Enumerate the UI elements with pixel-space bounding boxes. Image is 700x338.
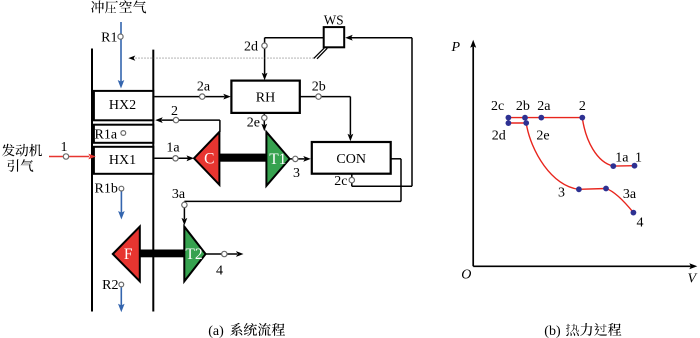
node R1	[118, 34, 123, 39]
process line 2d-2e	[508, 122, 526, 124]
state point 4	[631, 210, 637, 216]
svg-text:RH: RH	[256, 91, 275, 106]
svg-text:O: O	[461, 268, 471, 283]
node 2	[173, 117, 178, 122]
svg-text:3a: 3a	[172, 187, 186, 202]
wire 1a HX1 to C	[154, 157, 188, 159]
svg-text:2b: 2b	[312, 80, 326, 95]
turbine T2	[184, 227, 205, 282]
svg-text:1a: 1a	[615, 151, 629, 166]
svg-text:4: 4	[637, 216, 644, 231]
state point 2e	[523, 120, 529, 126]
wire 2b RH to CON	[300, 96, 351, 98]
svg-text:2d: 2d	[244, 40, 258, 55]
node 2d	[262, 43, 267, 48]
svg-text:C: C	[204, 150, 214, 167]
node 3a	[182, 202, 187, 207]
svg-text:1: 1	[61, 140, 68, 155]
svg-text:2c: 2c	[491, 99, 504, 114]
process line 2c-2	[508, 117, 582, 119]
state point 3a	[603, 186, 609, 192]
state point 2	[579, 115, 585, 121]
svg-text:2e: 2e	[536, 128, 549, 143]
svg-text:3: 3	[558, 186, 565, 201]
svg-text:HX1: HX1	[109, 153, 136, 168]
process line 1a-1	[613, 165, 634, 167]
box R1a	[94, 125, 153, 143]
svg-text:WS: WS	[324, 13, 344, 28]
svg-text:2: 2	[171, 104, 178, 119]
wire 2a HX2 to RH	[154, 96, 224, 98]
svg-text:3a: 3a	[623, 187, 637, 202]
compressor C	[194, 132, 219, 185]
svg-text:(b): (b)	[544, 324, 561, 338]
text ram-air 冲压空气	[91, 0, 104, 13]
node 1a	[173, 156, 178, 161]
state point 2b	[522, 115, 528, 121]
process curve 2-1a	[582, 118, 613, 167]
svg-text:R2: R2	[102, 278, 118, 293]
svg-text:R1b: R1b	[95, 181, 118, 196]
wire 3a CON to T2	[391, 158, 401, 160]
node 2e	[262, 115, 267, 120]
svg-text:2a: 2a	[537, 99, 551, 114]
svg-text:2: 2	[579, 99, 586, 114]
svg-text:HX2: HX2	[109, 98, 136, 113]
reheater RH	[231, 81, 299, 113]
node R2	[119, 282, 124, 287]
wire 1 engine bleed (red)	[49, 156, 89, 158]
svg-text:3: 3	[293, 166, 300, 181]
node 2b	[316, 94, 321, 99]
process line 2c-2d	[507, 118, 509, 123]
node 1	[63, 154, 68, 159]
svg-text:CON: CON	[336, 152, 366, 167]
text engine-bleed 发动机	[2, 144, 15, 157]
condenser CON	[312, 142, 391, 174]
svg-text:2b: 2b	[516, 99, 530, 114]
V axis	[473, 265, 691, 267]
svg-text:F: F	[124, 246, 133, 263]
node 4	[222, 251, 227, 256]
state point 2c	[506, 115, 512, 121]
wire water-spray dotted	[135, 57, 314, 59]
svg-text:V: V	[688, 272, 698, 287]
process curve 2e-3	[526, 123, 579, 189]
svg-text:2e: 2e	[247, 115, 260, 130]
svg-text:T1: T1	[269, 151, 286, 168]
turbine T1	[266, 132, 289, 186]
water separator WS	[324, 27, 345, 47]
state point 1a	[610, 163, 616, 169]
state point 2d	[506, 120, 512, 126]
wire 3 T1 to CON	[290, 158, 305, 160]
wire 4 outlet	[206, 253, 237, 255]
heat exchanger HX2	[94, 91, 153, 120]
state point 3	[576, 186, 582, 192]
wire R1b exhaust (blue)	[120, 192, 122, 213]
state point 2a	[538, 115, 544, 121]
svg-text:(a): (a)	[208, 324, 224, 338]
svg-text:1a: 1a	[166, 141, 180, 156]
svg-text:2c: 2c	[334, 174, 347, 189]
svg-text:P: P	[451, 40, 461, 55]
drain pipe symbol	[314, 48, 325, 59]
P axis	[472, 47, 474, 267]
text engine-bleed 引气	[7, 159, 18, 171]
wire 2d WS to RH	[265, 37, 324, 39]
node R1a	[121, 131, 126, 136]
node R1b	[119, 186, 124, 191]
state point 1	[632, 163, 638, 169]
duct left wall	[91, 49, 93, 312]
svg-text:R1: R1	[101, 30, 117, 45]
svg-text:2a: 2a	[197, 80, 211, 95]
duct right wall	[152, 50, 154, 312]
process curve 3a-4	[606, 189, 633, 213]
fan F	[113, 227, 140, 282]
node 3	[293, 156, 298, 161]
wire 2e RH to T1	[263, 113, 265, 125]
wire R2 exhaust (blue)	[120, 288, 122, 306]
wire 2 C to HX2	[219, 120, 221, 132]
wire 2c CON to WS	[351, 174, 353, 187]
svg-text:2d: 2d	[492, 128, 506, 143]
shaft F-T2	[140, 250, 185, 258]
svg-text:4: 4	[216, 263, 223, 278]
svg-text:1: 1	[635, 151, 642, 166]
svg-text:R1a: R1a	[95, 127, 118, 142]
wire R1 ram air inlet (blue)	[120, 22, 122, 82]
node 2c	[349, 177, 354, 182]
shaft C-T1	[219, 154, 266, 162]
svg-text:T2: T2	[185, 246, 202, 263]
process line 3-3a	[579, 188, 606, 191]
heat exchanger HX1	[94, 147, 153, 174]
node 2a	[200, 94, 205, 99]
